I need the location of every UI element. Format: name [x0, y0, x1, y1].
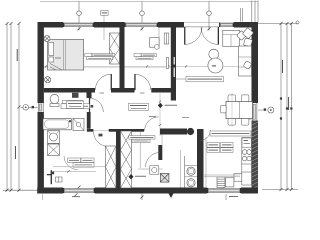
french door arc right [201, 27, 219, 44]
bed blanket folds [50, 64, 62, 71]
door dim text 1 [100, 92, 105, 94]
hall wall horizontal seg1 [87, 129, 94, 132]
axis bubble A [77, 11, 82, 16]
door bedroom2 arc [135, 74, 151, 90]
corridor wall seg2 [111, 88, 135, 93]
wall bottom seg1 [37, 188, 63, 194]
label bathroom [67, 101, 84, 108]
dining chair top1 [228, 95, 236, 102]
window left small [38, 103, 43, 112]
dryer [48, 144, 60, 156]
column round [187, 128, 194, 135]
corridor wardrobe right [121, 131, 132, 188]
kitchen wall horizontal [160, 129, 187, 135]
corridor wall seg1 [44, 88, 95, 93]
dimension ticks right [280, 22, 293, 191]
bathroom label row A [63, 100, 75, 103]
stairs white box [226, 178, 234, 187]
axis ticks below wall [78, 27, 211, 30]
door bedroom2 leaf [134, 74, 135, 90]
wall right upper [252, 22, 259, 103]
hall door arc lower [146, 153, 161, 168]
dimension line right bottom [262, 189, 298, 191]
label bedroom1 [85, 54, 92, 57]
window center tick bottom1 [78, 186, 81, 189]
hob burners [242, 150, 251, 161]
window top 1 [63, 23, 94, 27]
label living long [186, 76, 224, 81]
bed centre lines [63, 40, 65, 71]
kitchen counter right [242, 138, 252, 186]
wardrobe bedroom1 [110, 33, 120, 64]
wall lamp 1 [44, 36, 50, 42]
wall bottom seg3 [241, 188, 258, 194]
bottom stem x226 [225, 194, 227, 200]
dining chair bottom2 [241, 119, 249, 126]
sofa top part [223, 30, 240, 46]
washing machine [48, 131, 60, 144]
radiator bedroom2 lower [166, 58, 168, 69]
radiator bedroom2 [164, 33, 169, 44]
interior dimension v x160 [159, 93, 161, 136]
bottom stem x142 [141, 194, 143, 201]
terrace door right wall [252, 103, 258, 121]
door bedroom1 arc [95, 74, 111, 90]
bed pillow 1 [49, 42, 54, 55]
hall wall horizontal seg2 [109, 129, 144, 132]
niche wall bar [158, 145, 162, 160]
micro text bedroom1 [55, 57, 61, 59]
label corridor [129, 103, 149, 110]
utility valve symbol [51, 170, 52, 184]
toilet bathroom [50, 104, 59, 107]
label kitchen c2 [221, 143, 234, 148]
shower screen line bedroom2 [158, 28, 160, 50]
label kitchen c3 [207, 148, 220, 153]
terrace door arc right [236, 104, 252, 120]
wall top seg1 [38, 22, 64, 28]
dimension line right v2 [286, 23, 288, 190]
wall bottom seg2 [95, 188, 207, 194]
label kitchen c4 [221, 148, 234, 153]
utility label row2 [73, 163, 94, 167]
fixture small box [150, 166, 159, 174]
corridor door arc [94, 132, 109, 147]
bed pillow 2 [49, 57, 54, 62]
corner extension lines top-right [241, 1, 259, 23]
wall left upper [38, 22, 44, 103]
axis bubble C [207, 11, 212, 16]
dining table [226, 102, 253, 119]
window bottom 2 [207, 188, 241, 193]
hall door arc upper [145, 117, 159, 131]
coffee table mark [212, 65, 216, 67]
axis bubble B [140, 11, 145, 16]
dimension text 560 rotated [14, 146, 16, 159]
dimension line right v3 [290, 23, 292, 190]
interior dimension chain y66.3 [44, 65, 251, 67]
dishwasher box [234, 174, 242, 182]
interior wall A bedrooms [120, 28, 125, 93]
wall top seg2 [94, 22, 125, 28]
bathroom side wall upper [87, 93, 92, 99]
window bottom 1 [63, 188, 95, 193]
niche lines [161, 135, 163, 146]
corridor wardrobe left [106, 146, 117, 188]
sofa cushion 2 [242, 28, 253, 39]
window top 2 [125, 23, 159, 27]
dimension text right rotated 1 [282, 60, 284, 73]
dimension line right top [258, 23, 298, 25]
dimension baseline bottom-left [3, 189, 38, 191]
axis stem A [78, 2, 80, 31]
utility label row1 [68, 158, 81, 163]
top label leader [103, 15, 105, 40]
stairs steps [217, 177, 225, 188]
bathroom label row B [61, 104, 67, 109]
bed bedroom1 [48, 40, 84, 71]
axis stem C [208, 2, 210, 31]
label kitchen legend [210, 131, 251, 136]
counter edge line x180 [179, 150, 181, 188]
dimension line top [40, 1, 258, 3]
sofa cushion 3 [243, 38, 252, 47]
door bedroom1 leaf [111, 74, 112, 90]
level marker hall [128, 174, 133, 179]
sofa cushion 1 [237, 31, 247, 41]
level marker living [158, 103, 163, 108]
interior wall B living [171, 28, 176, 101]
dining chair bottom1 [228, 119, 236, 126]
radiator bottom-left [56, 177, 63, 182]
bottom wall extension line [42, 194, 44, 200]
counter edge line corridor [139, 132, 141, 168]
label hall [129, 136, 155, 140]
wc bowl 2 [187, 179, 195, 187]
axis stem B [141, 2, 143, 31]
dimension text 361 rotated [16, 49, 18, 61]
window center tick bottom2 [223, 186, 226, 189]
french door leaf right [218, 27, 219, 45]
interior dimension v x232 [231, 93, 233, 127]
dimension ticks left [6, 22, 21, 192]
micro text op note [182, 117, 189, 119]
utility door arc [64, 156, 78, 170]
kitchen wall vertical [197, 129, 204, 188]
dining chair top2 [241, 95, 249, 102]
level triangle bottom [169, 194, 174, 199]
bottom tick and text [75, 193, 78, 196]
wc strip lines [184, 156, 186, 188]
exterior lamp [268, 107, 274, 113]
wc bowl 1 [187, 167, 195, 175]
end circle right [296, 21, 299, 24]
coffee table big [208, 58, 223, 73]
terrace opening threshold [184, 21, 219, 23]
bathroom door arc [90, 98, 104, 112]
dimension line left outer [6, 24, 8, 191]
wall lamp 2 [45, 77, 51, 83]
axis bubble left [21, 105, 38, 111]
dimension line left inner [18, 24, 20, 191]
dimension line right v1 [280, 23, 282, 190]
bathroom side wall lower [87, 112, 91, 129]
wall top seg3 [158, 22, 184, 28]
wall right lower hatched [252, 121, 259, 194]
dining chair left [220, 105, 226, 113]
bathtub [43, 118, 72, 130]
dimension text right rotated 2 [288, 97, 290, 110]
kitchen sink box [242, 138, 251, 147]
bathroom door leaf [89, 98, 91, 112]
shower cabin [73, 118, 84, 130]
corridor wall seg3 [151, 88, 175, 93]
label bedroom2 [134, 54, 141, 57]
utility leader lines [53, 166, 105, 168]
label kitchen c1 [207, 143, 220, 148]
window top 3 [219, 23, 234, 27]
counter edge line x206 [205, 137, 207, 187]
sofa right part [239, 46, 252, 76]
wardrobe spine wall [116, 129, 121, 188]
french door arc left [185, 27, 202, 44]
shower dark box [160, 174, 169, 183]
kitchen door arc [200, 130, 211, 141]
sofa throw pillow [243, 61, 252, 70]
door dim text 2 [140, 92, 145, 94]
wall left lower [38, 112, 44, 194]
coffee table small [209, 49, 219, 59]
wall cistern dark [72, 93, 79, 98]
french door leaf left [184, 27, 185, 45]
dimension line left middle [10, 24, 12, 191]
desk bedroom2 [150, 38, 160, 48]
kitchen counter lines top [204, 174, 240, 176]
wall top seg4 [234, 22, 258, 28]
micro text kitchen pass [149, 116, 156, 118]
top label box [101, 11, 108, 16]
bottom text right [229, 196, 238, 198]
